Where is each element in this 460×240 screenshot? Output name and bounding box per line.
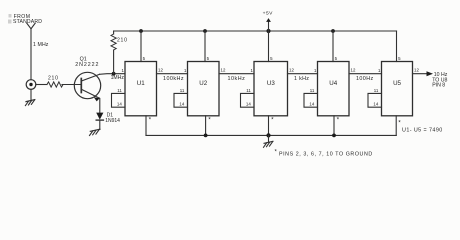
svg-text:1 MHz: 1 MHz xyxy=(33,42,49,48)
svg-text:14: 14 xyxy=(117,102,122,107)
svg-text:U1- U5 = 7490: U1- U5 = 7490 xyxy=(402,127,443,133)
ground (rail) xyxy=(264,135,273,147)
wire 10kHz xyxy=(219,74,254,82)
node rail U3 / +5V xyxy=(266,29,270,33)
wire ground pin U5 xyxy=(396,116,401,136)
svg-text:PIN 8: PIN 8 xyxy=(432,83,445,89)
svg-text:1 kHz: 1 kHz xyxy=(294,76,309,82)
node ground rail U3 xyxy=(266,133,270,137)
IC U5 xyxy=(368,56,419,116)
resistor 210 (pull-up, vertical) xyxy=(111,31,128,74)
svg-text:12: 12 xyxy=(351,68,356,73)
svg-text:11: 11 xyxy=(117,88,122,93)
svg-text:100kHz: 100kHz xyxy=(163,76,184,82)
wire ground rail xyxy=(146,134,396,136)
note pins to ground xyxy=(275,150,373,158)
node 1MHz junction xyxy=(111,72,125,81)
label FROM STANDARD xyxy=(13,14,42,25)
input terminal node xyxy=(26,80,36,90)
ground (diode) xyxy=(90,120,100,135)
label 1 MHz xyxy=(33,42,49,48)
svg-text:10kHz: 10kHz xyxy=(228,76,246,82)
wire +5V rail xyxy=(114,30,397,32)
input arrowhead xyxy=(27,23,35,29)
svg-text:100Hz: 100Hz xyxy=(356,76,374,82)
wire collector to U1 xyxy=(100,73,126,76)
svg-text:U1: U1 xyxy=(137,80,145,87)
svg-text:U2: U2 xyxy=(199,80,207,87)
svg-text:12: 12 xyxy=(158,68,163,73)
wire ground pin U3 xyxy=(269,116,275,136)
node rail U4 xyxy=(331,29,335,33)
wire 100Hz xyxy=(349,74,382,82)
svg-text:14: 14 xyxy=(246,102,251,107)
wire pin5 U3 xyxy=(268,31,270,62)
wire emitter to diode xyxy=(99,98,101,112)
svg-text:1N914: 1N914 xyxy=(105,118,120,124)
wire ground pin U1 xyxy=(146,116,152,136)
wire ground pin U2 xyxy=(206,116,212,136)
wire resistor to base xyxy=(62,84,81,86)
IC U3 xyxy=(241,56,295,116)
svg-text:11: 11 xyxy=(246,88,251,93)
svg-text:U3: U3 xyxy=(267,80,275,87)
wire pin5 U1 xyxy=(140,31,142,62)
wire output xyxy=(413,73,428,75)
IC U4 xyxy=(304,56,356,116)
node ground rail U4 xyxy=(332,134,336,138)
svg-text:14: 14 xyxy=(309,102,314,107)
svg-text:+5V: +5V xyxy=(263,10,274,16)
note U1-U5 7490 xyxy=(402,127,443,133)
svg-text:12: 12 xyxy=(289,68,294,73)
ground (input terminal) xyxy=(25,89,34,105)
transistor Q1 2N2222 xyxy=(74,56,100,101)
svg-text:12: 12 xyxy=(221,68,226,73)
svg-text:U5: U5 xyxy=(393,80,401,87)
page-edge smudge xyxy=(8,14,12,24)
svg-text:11: 11 xyxy=(310,88,315,93)
IC U2 xyxy=(174,56,226,116)
svg-text:2N2222: 2N2222 xyxy=(75,62,99,68)
svg-text:11: 11 xyxy=(180,88,185,93)
svg-text:1MHz: 1MHz xyxy=(111,75,125,81)
wire pin5 U4 xyxy=(332,31,334,62)
wire ground pin U4 xyxy=(334,116,340,136)
svg-text:14: 14 xyxy=(179,102,184,107)
wire pin5 U5 xyxy=(396,31,398,62)
node rail U1 xyxy=(139,29,143,33)
IC U1 xyxy=(112,56,164,116)
svg-text:U4: U4 xyxy=(329,80,337,87)
svg-text:210: 210 xyxy=(48,75,59,81)
diode D1 1N914 xyxy=(96,113,120,124)
wire terminal to resistor xyxy=(36,84,47,86)
svg-text:12: 12 xyxy=(414,68,419,73)
svg-text:210: 210 xyxy=(117,38,128,44)
wire input vertical xyxy=(30,29,32,80)
node ground rail U2 xyxy=(204,134,208,138)
+5V supply xyxy=(263,10,274,31)
svg-text:11: 11 xyxy=(374,88,379,93)
wire 1 kHz xyxy=(288,74,318,82)
wire 100kHz xyxy=(157,74,188,82)
node output arrow 10Hz xyxy=(427,71,448,88)
resistor 210 (base) xyxy=(47,75,63,87)
svg-text:PINS 2, 3, 6, 7, 10 TO GROUND: PINS 2, 3, 6, 7, 10 TO GROUND xyxy=(279,152,373,158)
wire pin5 U2 xyxy=(204,31,206,62)
svg-text:14: 14 xyxy=(373,102,378,107)
node rail U2 xyxy=(203,29,207,33)
